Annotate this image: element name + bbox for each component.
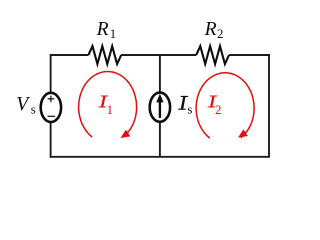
label I2 [207,96,217,108]
svg-text:1: 1 [107,103,113,117]
svg-text:1: 1 [110,27,116,41]
label Is [178,96,188,110]
wire top-left segment [51,54,89,56]
current source arrow [159,101,161,118]
wire middle upper [159,55,161,93]
svg-text:s: s [187,102,192,116]
svg-text:2: 2 [215,103,221,117]
wire left upper [50,54,52,92]
wire bottom [51,156,269,158]
voltage source Vs circle [41,93,61,122]
minus terminal [48,115,55,117]
mesh loop I2 arc [196,73,254,138]
mesh loop I1 arc [79,72,137,138]
svg-text:R: R [204,19,217,40]
label I1 [98,96,108,108]
svg-text:R: R [96,19,109,40]
wire right vertical [268,54,270,158]
current source Is circle [150,93,170,122]
wire left lower [50,122,52,157]
mesh loop I1 arrowhead [121,130,131,138]
svg-text:s: s [31,102,36,116]
svg-text:2: 2 [217,27,223,41]
mesh loop I2 arrowhead [238,129,248,137]
wire middle lower [159,122,161,157]
wire top-middle segment [121,54,196,56]
resistor R1 [88,46,121,64]
wire top-right segment [229,54,270,56]
plus terminal [48,96,55,103]
resistor R2 [196,46,229,64]
svg-text:V: V [16,93,30,115]
